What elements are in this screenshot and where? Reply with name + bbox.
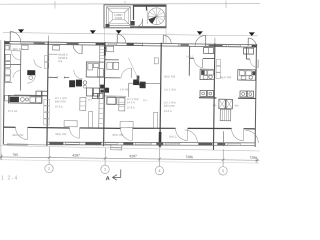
svg-text:HALL: HALL [186,54,193,58]
u4 hall door leaf [202,59,204,68]
south wall left thin [3,143,47,146]
svg-text:4287: 4287 [72,153,80,157]
u3 leader line [128,58,139,81]
u3 column stub [137,76,140,81]
svg-text:LIV: LIV [143,98,147,102]
svg-text:BED RM: BED RM [220,75,232,79]
entry marker unit4 [197,31,203,35]
u1 wall shelf [5,45,9,50]
u2 bath room [86,62,104,77]
unit1 interior [4,43,48,103]
u5 kitchen dark bit [252,71,255,75]
svg-text:BED RM: BED RM [55,132,67,136]
u2 kitchen circles [83,81,87,85]
dim texts [12,153,257,160]
svg-text:A: A [106,176,110,182]
north window dark bars [34,42,223,46]
party wall B upper dashes [44,55,49,68]
inset mid blob [131,21,135,26]
svg-text:LIV: LIV [88,97,92,101]
u4 washer boxes [200,90,206,96]
sheet line tick left [54,1,56,9]
entry marker unit3 [116,30,122,34]
north wall solid chunks [4,41,257,47]
svg-text:BED RM: BED RM [55,99,67,103]
u1 basin box [5,69,10,75]
party wall B [47,41,48,146]
party wall E [213,43,214,150]
u1 blob circle [29,76,33,80]
svg-text:BALC: BALC [169,135,176,139]
svg-text:STAIR: STAIR [115,16,123,20]
u4 kitchen counter [200,69,215,80]
entry door arc unit4 [195,35,206,46]
party E stub below corridor [222,131,224,146]
south wall solid chunks [49,141,225,147]
u4 kitchen boxes [201,70,207,75]
south door arc unit5 [245,130,258,143]
u1 kitchen counter [8,96,42,104]
u5 hall wall vertical [245,47,247,59]
svg-text:16.8 A: 16.8 A [164,109,172,113]
u3 hall door arc [121,68,131,78]
u5 hall door leaf [257,59,259,67]
dumbwaiter inner band [109,9,129,24]
ground line [0,146,260,151]
flue box unit3 [154,112,158,128]
south wall step jog [46,142,48,145]
u1 room door arc [11,50,21,60]
north window mullion ticks [143,43,162,47]
unit4 interior [189,46,217,98]
inset dark top band right [133,5,166,7]
inset dark bottom band [130,26,166,28]
spiral stair dark wedge [149,16,157,23]
u3 box pair [92,93,97,98]
svg-text:BED RM: BED RM [13,47,25,51]
inset leader right [165,28,167,43]
svg-text:14.3 A: 14.3 A [127,100,135,104]
flue box unit2 [89,111,93,127]
svg-text:8 8: 8 8 [58,59,62,63]
dim ticks [1,146,257,167]
u1 bath wall [4,63,20,65]
corridor wall [4,126,256,131]
u5 hall door arc [250,59,258,67]
east wall [255,44,256,147]
party wall C [104,42,105,146]
corridor lintel box u3 [120,121,133,127]
svg-text:16.8 A: 16.8 A [55,105,63,109]
u1 box pair [36,91,41,96]
u4 hall wall horizontal [189,57,193,59]
entry marker unit1 [18,29,24,33]
party wall B closet dashes [44,99,50,125]
svg-text:3: 3 [104,168,106,172]
u1 hall wall [9,43,11,51]
svg-text:15.2 A2: 15.2 A2 [8,109,18,113]
u1 wc box [5,61,10,67]
entry door arc unit5 [248,38,256,46]
entry door arc unit1 [10,31,21,42]
spiral stair [148,8,165,25]
svg-text:LIV RM: LIV RM [120,87,130,91]
entry door leaf unit1 [9,31,11,41]
core wall [133,5,135,20]
section marker A [112,169,120,180]
stair enclosure line [146,9,148,25]
u3 bath top wall [105,59,119,61]
u3 entry closet [107,46,114,52]
u4 kitchen dark bit [202,71,205,75]
dim slashes [0,156,258,162]
left edge smear [0,40,1,160]
u3 column circle [139,82,144,87]
u4 closet row [204,47,214,53]
svg-text:795: 795 [12,153,18,157]
u5 kitchen counter [238,70,256,81]
u1 lower box [5,95,10,101]
u2 hall wall top [49,53,58,55]
u1 kitchen fill [9,97,19,103]
u1 tub box [5,76,10,82]
companion rungs C [99,47,105,124]
grid bubble 5 [219,167,228,176]
u4 hall door arc [194,59,203,68]
u1 kitchen boxes [30,97,36,102]
u5 washer wall [238,97,256,99]
party E service pair [219,99,226,109]
unit2 interior [48,45,105,96]
u1 small box [5,54,10,60]
entry marker unit2 [90,30,96,34]
core door arc [134,19,143,28]
u3 basin [113,62,119,69]
u5 washer boxes [240,91,246,97]
stair core inset (top) [104,1,166,43]
inset top tick [124,1,126,5]
plumbing blob C [100,85,109,93]
svg-text:43b: 43b [234,104,239,107]
grid bubble 3 [101,165,110,174]
entrance stoop [111,145,122,150]
u2 wc [88,63,93,70]
south wall [47,140,255,147]
u2 text rows [58,53,68,64]
svg-text:5: 5 [222,169,224,173]
balcony door arc unit4a [163,35,171,43]
u2 basin [93,64,99,68]
grid bubble 2 [45,164,54,173]
dumbwaiter label box [113,13,125,20]
u1 arc3 [34,59,42,67]
sheet line tick right [225,1,227,9]
u1 kitchen circles [20,97,24,101]
u5 closet row [244,48,254,54]
u2 hall door jambs [56,76,58,79]
core jamb mark [146,5,148,11]
entry marker unit5 [249,32,255,36]
u1 door arc [13,70,21,78]
party E closet dashes [216,60,221,79]
u1 shelf [4,81,12,83]
entry door arc unit3 [117,34,126,43]
inset border [104,5,166,28]
balcony edge line [3,33,258,36]
room labels [7,47,232,140]
sheet fold line [0,3,260,6]
u3 hall door leaf [130,68,132,78]
tall cupboard u2 [80,97,86,110]
entry door arc unit2 [73,45,82,54]
u3 kitchen boxes [107,97,116,104]
flue box unit3 top [154,58,158,64]
u3 wc [107,62,113,69]
u3 hall wall [105,77,121,79]
svg-text:BED RM: BED RM [112,133,124,137]
u5 kitchen boxes [239,71,245,76]
u1 dark blob [27,70,35,75]
north windows [21,42,241,46]
companion wall C [99,44,100,128]
dumbwaiter box [107,7,131,26]
u3 mid wall [129,82,161,84]
svg-text:BED RM: BED RM [164,74,176,78]
svg-text:LIV 1 RM: LIV 1 RM [164,87,176,91]
u3 kitchen wall [104,95,126,97]
party wall C dark segment [104,46,106,56]
party wall D [160,43,161,148]
u5 kitchen sink [249,76,252,79]
u4 washer wall [199,97,216,99]
svg-text:1 2-4: 1 2-4 [1,176,18,182]
svg-text:4287: 4287 [129,154,137,158]
svg-text:4: 4 [158,169,160,173]
corridor lintel box u2 [64,121,77,127]
u2 closet top [53,45,60,50]
tall cupboard u3 [119,98,125,111]
u3 column blob [133,80,139,86]
party wall D foot [159,132,162,147]
u2 kitchen blob [69,80,75,87]
u2 hall wall [48,76,57,78]
dimension line [0,157,259,160]
svg-text:BED RM: BED RM [12,133,24,137]
main plan (tilted like the scan) [1,29,260,152]
corridor door arcs [15,126,243,143]
u5 hall wall horizontal [246,58,249,60]
party E hatch [220,109,231,121]
dimension line 2 [0,160,259,163]
south door arc unit4 [184,130,197,143]
u1 room door leaf [11,50,20,52]
svg-text:2: 2 [48,167,50,171]
party wall top stubs [48,35,215,43]
west wall [3,41,4,145]
grid bubble 4 [155,166,164,175]
u2 kitchen door arc [74,70,83,79]
south windows [7,140,240,148]
unit3 interior [92,46,161,105]
u2 boxes [86,88,92,96]
u4 kitchen sink [209,75,212,78]
u2 tub [98,69,104,77]
u4 hall wall vertical [188,46,190,75]
svg-text:7286: 7286 [249,156,257,160]
svg-text:43b: 43b [212,104,217,107]
u1 inner wall [19,51,22,91]
dumbwaiter diagonals [107,7,131,26]
svg-text:16.8 A: 16.8 A [127,105,135,109]
inset corner mark [106,24,110,27]
svg-text:7286: 7286 [185,155,193,159]
u1 closet box [22,45,29,50]
u1 arc2 [27,75,35,83]
u1 kitchen wall [14,94,48,96]
u3 mid wall leg [127,83,129,97]
unit5 interior [212,47,258,147]
dimension block [0,146,259,184]
svg-text:BED RM: BED RM [164,104,176,108]
inset leader left [103,28,105,42]
north wall [4,41,257,48]
